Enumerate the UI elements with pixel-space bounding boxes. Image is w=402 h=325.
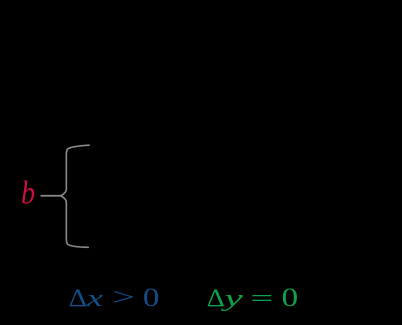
label Δx > 0 (blue) [69, 283, 160, 312]
svg-text:Δ: Δ [207, 285, 225, 312]
brace b (vertical curly brace) [61, 145, 89, 247]
svg-text:y: y [221, 286, 243, 312]
svg-text:0: 0 [282, 283, 299, 312]
svg-text:b: b [21, 176, 35, 212]
svg-text:>: > [112, 285, 135, 311]
svg-text:=: = [250, 286, 273, 312]
svg-text:x: x [85, 286, 104, 312]
label Δy = 0 (green) [207, 283, 299, 312]
wire (connector from label b to brace point) [41, 195, 61, 197]
svg-text:Δ: Δ [69, 285, 88, 312]
svg-text:0: 0 [143, 283, 160, 312]
